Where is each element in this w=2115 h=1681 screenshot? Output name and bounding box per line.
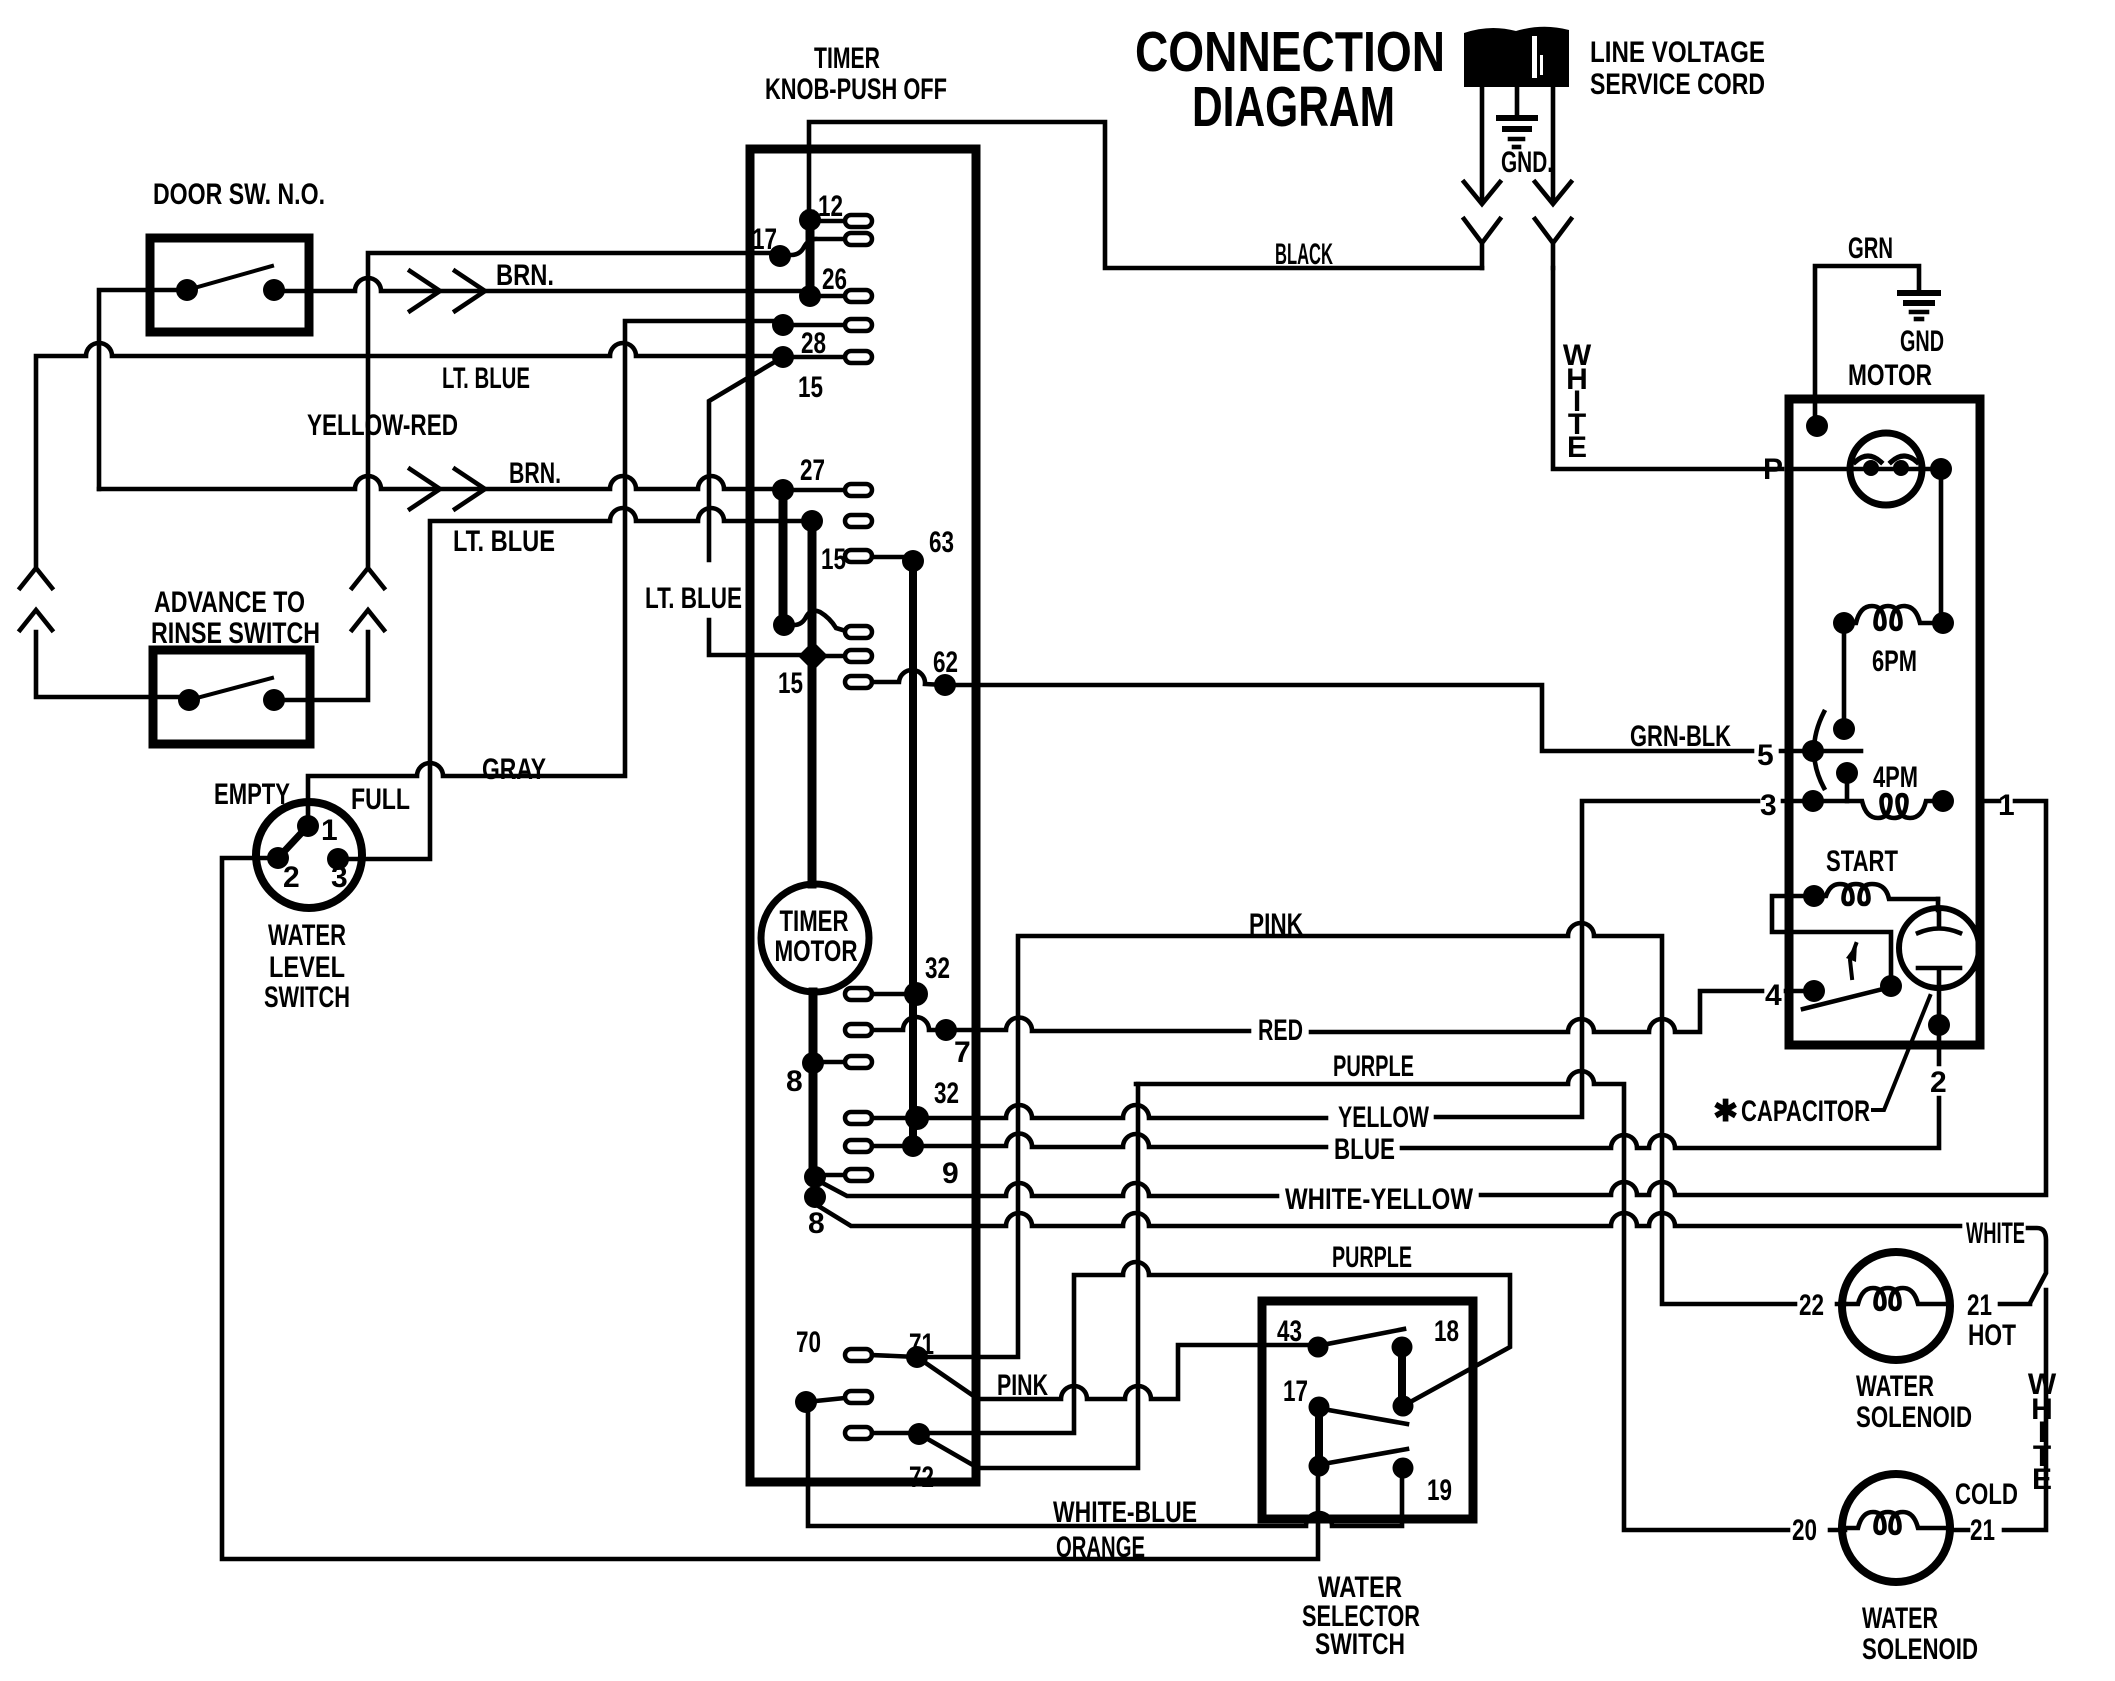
- timer terminal 70: [845, 1391, 872, 1403]
- svg-text:3: 3: [1760, 789, 1777, 822]
- 6PM coil: [1844, 606, 1943, 629]
- svg-text:15: 15: [798, 371, 823, 404]
- svg-text:DOOR SW. N.O.: DOOR SW. N.O.: [153, 178, 325, 211]
- timer terminal 71: [845, 1349, 872, 1361]
- wire lower contact to 4PM: [1845, 773, 1850, 801]
- svg-text:WATER: WATER: [1856, 1370, 1934, 1403]
- timer terminal 28: [845, 351, 872, 363]
- selector bar 18: [1398, 1347, 1406, 1406]
- timer terminal LT.BLUE pin: [845, 515, 872, 527]
- timer terminal 8 upper: [845, 1056, 872, 1068]
- timer terminal 8a: [845, 1169, 872, 1181]
- wire terminal to dot 63: [872, 555, 913, 560]
- wire PINK pin 71 up and over: [872, 923, 1845, 1357]
- selector contact 17 dot: [1309, 1397, 1330, 1418]
- start switch right dot: [1880, 975, 1902, 997]
- svg-text:RED: RED: [1258, 1014, 1303, 1047]
- wire YELLOW pin 32b to motor pin 3: [872, 801, 1813, 1118]
- timer pin 26 dot: [799, 285, 821, 307]
- svg-text:LT. BLUE: LT. BLUE: [453, 525, 555, 558]
- wire GRAY from water level pin 1 to timer gray pin: [308, 321, 775, 826]
- selector contact 19 dot: [1393, 1458, 1414, 1479]
- timer pin 8a dot: [804, 1166, 826, 1188]
- svg-text:BRN.: BRN.: [496, 259, 554, 292]
- timer contact bar 12-26: [806, 214, 815, 296]
- dot 63: [902, 550, 924, 572]
- plug left prong wire with arrow: [1464, 87, 1500, 204]
- timer pin 28 dot: [772, 346, 794, 368]
- svg-text:BLUE: BLUE: [1334, 1133, 1395, 1166]
- timer gray pin dot: [772, 314, 794, 336]
- timer terminal 62: [845, 676, 872, 688]
- timer terminal 17: [845, 233, 872, 245]
- start winding left dot: [1803, 885, 1825, 907]
- capacitor plates: [1918, 912, 1960, 987]
- motor pulley circle: [1850, 433, 1922, 505]
- svg-text:SERVICE CORD: SERVICE CORD: [1590, 68, 1765, 101]
- svg-text:YELLOW: YELLOW: [1338, 1101, 1429, 1134]
- label TIMER MOTOR: [775, 905, 858, 968]
- svg-text:BRN.: BRN.: [509, 457, 561, 490]
- timer terminal 9: [845, 1140, 872, 1152]
- start switch arm: [1803, 988, 1887, 1009]
- wire RED pin 7 to motor pin 4: [872, 991, 1814, 1032]
- timer terminal 26: [845, 290, 872, 302]
- hot solenoid circle: [1842, 1252, 1950, 1360]
- svg-text:8: 8: [786, 1065, 803, 1098]
- svg-text:17: 17: [752, 223, 777, 256]
- svg-text:WHITE-BLUE: WHITE-BLUE: [1053, 1496, 1197, 1529]
- label WATER SOLENOID (hot): [1856, 1370, 1972, 1434]
- water level switch contact 2: [267, 847, 289, 869]
- svg-text:21: 21: [1970, 1514, 1995, 1547]
- pulley contact dots: [1863, 460, 1879, 476]
- timer pin 8b dot: [804, 1186, 826, 1208]
- svg-text:1: 1: [321, 814, 338, 847]
- svg-text:WHITE-YELLOW: WHITE-YELLOW: [1285, 1183, 1474, 1216]
- service cord plug body: [1464, 27, 1569, 87]
- svg-text:PURPLE: PURPLE: [1333, 1050, 1414, 1083]
- svg-text:22: 22: [1799, 1289, 1824, 1322]
- rinse switch contact right: [263, 689, 285, 711]
- capacitor leader line: [1873, 996, 1930, 1110]
- svg-text:LT. BLUE: LT. BLUE: [442, 362, 530, 395]
- wire BRN (door switch to timer pin 26): [274, 278, 802, 291]
- svg-text:DIAGRAM: DIAGRAM: [1192, 75, 1395, 139]
- dot 62: [934, 674, 956, 696]
- timer center bar (LT.BLUE pin down to motor): [812, 521, 813, 1178]
- svg-text:4PM: 4PM: [1873, 761, 1918, 794]
- water level switch contact 1: [297, 815, 319, 837]
- svg-text:HOT: HOT: [1968, 1319, 2016, 1352]
- wire 21 hot to white riser: [1950, 1290, 2046, 1530]
- wire diamond to terminal 15b: [813, 654, 845, 659]
- timer terminal gray pin: [845, 319, 872, 331]
- svg-text:E: E: [1567, 431, 1587, 464]
- wire from door switch left down to BRN wire: [99, 290, 187, 489]
- receptacle Y right (WHITE): [1535, 219, 1571, 268]
- svg-text:72: 72: [909, 1461, 934, 1494]
- svg-text:17: 17: [1283, 1375, 1308, 1408]
- svg-text:CAPACITOR: CAPACITOR: [1741, 1095, 1870, 1128]
- label ADVANCE TO RINSE SWITCH: [151, 586, 320, 650]
- timer terminal 12: [845, 215, 872, 227]
- wire start coil to capacitor: [1936, 899, 1941, 910]
- motor pin 4 dot: [1803, 980, 1825, 1002]
- title CONNECTION DIAGRAM: [1135, 20, 1445, 139]
- timer pin 8 upper wire to terminal: [813, 1060, 845, 1065]
- door switch contact right: [263, 279, 285, 301]
- timer pin 70 wire to terminal: [806, 1398, 845, 1402]
- water level switch body: [256, 802, 362, 908]
- svg-text:SWITCH: SWITCH: [1315, 1628, 1405, 1661]
- timer pin 27 dot: [772, 479, 794, 501]
- motor box: [1789, 399, 1980, 1045]
- svg-text:32: 32: [925, 952, 950, 985]
- svg-text:SWITCH: SWITCH: [264, 981, 350, 1014]
- plug ground prong: [1499, 87, 1535, 147]
- door switch box: [150, 238, 309, 332]
- svg-text:5: 5: [1757, 739, 1774, 772]
- timer pin 8 upper dot: [802, 1052, 824, 1074]
- label WATER LEVEL SWITCH: [264, 919, 350, 1014]
- timer pin 27 wire to terminal: [783, 488, 845, 493]
- wire left chevron line down to rinse switch: [36, 632, 180, 697]
- selector contact 18 dot: [1392, 1337, 1413, 1358]
- water selector switch box: [1262, 1301, 1473, 1519]
- svg-text:RINSE SWITCH: RINSE SWITCH: [151, 617, 320, 650]
- svg-text:2: 2: [1930, 1066, 1947, 1099]
- svg-text:GND.: GND.: [1501, 146, 1553, 179]
- timer pin dot for LT.BLUE pin: [801, 510, 823, 532]
- svg-text:✱: ✱: [1713, 1095, 1738, 1128]
- wire rinse switch right to timer pin 17: [274, 253, 771, 700]
- svg-text:ADVANCE TO: ADVANCE TO: [154, 586, 305, 619]
- water level switch contact 3: [327, 848, 349, 870]
- svg-text:43: 43: [1277, 1315, 1302, 1348]
- dot right of pulley: [1930, 458, 1952, 480]
- selector arm 43: [1322, 1329, 1404, 1345]
- timer bar 63 to 9: [909, 561, 917, 1146]
- label LINE VOLTAGE SERVICE CORD: [1590, 36, 1765, 101]
- start winding coil: [1814, 884, 1938, 904]
- label TIMER KNOB-PUSH OFF: [765, 42, 947, 106]
- dot 32b: [905, 1106, 929, 1130]
- svg-text:12: 12: [818, 190, 843, 223]
- svg-text:6PM: 6PM: [1872, 645, 1917, 678]
- svg-text:15: 15: [778, 667, 803, 700]
- svg-text:SOLENOID: SOLENOID: [1856, 1401, 1972, 1434]
- timer terminal 27: [845, 484, 872, 496]
- svg-text:ORANGE: ORANGE: [1056, 1531, 1145, 1564]
- motor pin 3 dot: [1802, 790, 1824, 812]
- svg-text:GND: GND: [1900, 325, 1944, 358]
- svg-text:LEVEL: LEVEL: [269, 951, 345, 984]
- timer pin 28 wire to terminal: [783, 355, 845, 360]
- motor switch upper contact dot: [1833, 718, 1855, 740]
- 6PM coil right dot: [1932, 612, 1954, 634]
- selector arm 17b: [1323, 1449, 1407, 1464]
- timer terminal 7: [845, 1024, 872, 1036]
- ground symbol (motor): [1900, 293, 1938, 319]
- svg-text:62: 62: [933, 646, 958, 679]
- svg-text:LT. BLUE: LT. BLUE: [645, 582, 742, 615]
- wire WHITE-YELLOW pin 8 to motor pin 1: [817, 801, 2046, 1196]
- junction diamond 15: [798, 641, 828, 671]
- svg-text:18: 18: [1434, 1315, 1459, 1348]
- quick-connect arrows on second BRN wire: [410, 469, 485, 509]
- svg-text:GRAY: GRAY: [482, 753, 546, 786]
- svg-text:8: 8: [808, 1207, 825, 1240]
- wire PURPLE pin 72 horizontal to riser: [872, 1262, 1510, 1433]
- selector contact 18b dot: [1393, 1396, 1414, 1417]
- timer pin 17 dot: [769, 245, 791, 267]
- 4PM coil: [1813, 795, 1943, 818]
- wire BLACK from plug to timer knob wire: [809, 122, 1482, 268]
- door switch contact left: [176, 279, 198, 301]
- wire 6PM to switch contact: [1842, 623, 1847, 729]
- timer terminal 32b: [845, 1112, 872, 1124]
- svg-text:KNOB-PUSH OFF: KNOB-PUSH OFF: [765, 73, 947, 106]
- wire PURPLE to solenoid 20: [1136, 1071, 1845, 1530]
- dot 9: [902, 1135, 924, 1157]
- svg-text:YELLOW-RED: YELLOW-RED: [307, 409, 458, 442]
- timer terminal 32a: [845, 988, 872, 1000]
- label WHITE (vertical): [1563, 339, 1592, 464]
- dot 7: [935, 1019, 957, 1041]
- wire WHITE from plug down to motor P: [1553, 268, 1782, 469]
- svg-text:9: 9: [942, 1157, 959, 1190]
- svg-text:GRN-BLK: GRN-BLK: [1630, 720, 1731, 753]
- wire terminal to dot 32a: [872, 992, 916, 997]
- dot 72: [908, 1423, 930, 1445]
- svg-text:SOLENOID: SOLENOID: [1862, 1633, 1978, 1666]
- wire WHITE pin 8 to solenoid 21: [820, 1207, 2046, 1303]
- capacitor pin 2 dot: [1928, 1014, 1950, 1036]
- start switch flag: [1850, 944, 1856, 978]
- capacitor circle: [1899, 908, 1979, 988]
- svg-text:20: 20: [1792, 1514, 1817, 1547]
- timer pin 26 wire to terminal: [810, 294, 845, 299]
- svg-text:GRN: GRN: [1848, 232, 1893, 265]
- pulley contact arcs: [1855, 456, 1917, 462]
- timer pin 15a hop wire to terminal: [784, 611, 846, 631]
- svg-text:3: 3: [331, 861, 348, 894]
- motor switch bar from 5: [1813, 749, 1861, 754]
- timer pin 70 dot: [795, 1391, 817, 1413]
- timer pin 12 dot: [799, 209, 821, 231]
- label WATER SELECTOR SWITCH: [1302, 1571, 1420, 1661]
- timer contact bar 27-15: [779, 490, 788, 625]
- label WATER SOLENOID (cold): [1862, 1602, 1978, 1666]
- wire LT. BLUE (left vertical to timer pin 28): [36, 343, 775, 565]
- svg-text:WHITE: WHITE: [1966, 1217, 2025, 1250]
- quick-connect arrows on BRN wire: [410, 271, 485, 311]
- 4PM right dot: [1932, 790, 1954, 812]
- water level switch arm 2-1: [278, 828, 306, 858]
- motor pin 5 dot: [1802, 740, 1824, 762]
- receptacle Y left (BLACK): [1464, 219, 1500, 268]
- timer motor circle: [761, 884, 869, 992]
- pulley wire through: [1789, 467, 1941, 472]
- svg-text:COLD: COLD: [1955, 1478, 2018, 1511]
- svg-text:70: 70: [796, 1326, 821, 1359]
- svg-text:PINK: PINK: [1249, 908, 1303, 941]
- svg-text:EMPTY: EMPTY: [214, 778, 290, 811]
- svg-text:FULL: FULL: [351, 783, 410, 816]
- wire BRN (second, to timer pin 27): [99, 476, 776, 489]
- svg-text:2: 2: [283, 861, 300, 894]
- selector bar 17: [1315, 1407, 1323, 1466]
- hot solenoid coil: [1844, 1288, 1948, 1309]
- wire from pin 28 dot to inner LT.BLUE vertical: [709, 357, 800, 655]
- svg-text:WATER: WATER: [268, 919, 346, 952]
- timer pin 17 hop wire to terminal: [780, 239, 845, 255]
- timer terminal 63: [845, 550, 872, 562]
- motor switch arc: [1814, 712, 1824, 788]
- svg-text:19: 19: [1427, 1474, 1452, 1507]
- svg-text:MOTOR: MOTOR: [1848, 359, 1932, 392]
- svg-text:PURPLE: PURPLE: [1332, 1241, 1412, 1274]
- wire ORANGE from water level pin 2 to selector pin 17: [222, 858, 1318, 1559]
- cold solenoid coil: [1844, 1512, 1948, 1533]
- wire 62 to motor switch pin 5: [872, 670, 1813, 751]
- motor switch lower contact dot: [1836, 762, 1858, 784]
- rinse switch arm: [189, 678, 272, 700]
- wire PINK pin 71 to selector 43: [917, 1345, 1318, 1399]
- svg-text:PINK: PINK: [997, 1369, 1048, 1402]
- dot 32a: [904, 982, 928, 1006]
- svg-text:MOTOR: MOTOR: [775, 935, 858, 968]
- label WHITE (vertical right): [2028, 1368, 2057, 1496]
- 6PM coil left dot: [1833, 612, 1855, 634]
- svg-text:WATER: WATER: [1862, 1602, 1938, 1635]
- door switch arm: [187, 266, 272, 290]
- cold solenoid circle: [1842, 1474, 1950, 1582]
- svg-text:TIMER: TIMER: [780, 905, 849, 938]
- motor ground dot: [1806, 415, 1828, 437]
- svg-text:P: P: [1763, 453, 1783, 486]
- chevrons on right advance wire: [352, 568, 384, 630]
- timer terminal 15b: [845, 650, 872, 662]
- selector arm 17: [1323, 1409, 1407, 1424]
- selector contact 17b dot: [1309, 1456, 1330, 1477]
- wire pulley to 6PM coil: [1939, 469, 1944, 623]
- wire WHITE-BLUE pin 70 to selector 19: [808, 1402, 1402, 1526]
- selector contact 43 dot: [1308, 1337, 1329, 1358]
- start switch frame: [1772, 896, 1891, 986]
- svg-text:27: 27: [800, 454, 825, 487]
- rinse switch contact left: [178, 689, 200, 711]
- timer box: [750, 149, 976, 1482]
- timer terminal 15a: [845, 626, 872, 638]
- svg-text:26: 26: [822, 263, 847, 296]
- svg-text:21: 21: [1967, 1289, 1992, 1322]
- svg-text:7: 7: [954, 1036, 971, 1069]
- svg-text:63: 63: [929, 526, 954, 559]
- svg-text:BLACK: BLACK: [1275, 238, 1333, 271]
- dot 71: [906, 1346, 928, 1368]
- wire PURPLE pin 72 diagonal to riser: [919, 1084, 1138, 1468]
- timer pin 12 wire to terminal: [810, 219, 845, 224]
- wire GRN motor to ground: [1815, 266, 1919, 420]
- svg-text:1: 1: [1998, 789, 2015, 822]
- plug right prong wire with arrow: [1535, 87, 1571, 204]
- svg-text:E: E: [2032, 1463, 2052, 1496]
- svg-text:32: 32: [934, 1077, 959, 1110]
- advance to rinse switch box: [153, 650, 310, 744]
- svg-text:START: START: [1826, 845, 1898, 878]
- timer terminal 72: [845, 1427, 872, 1439]
- chevrons on left advance wire: [20, 568, 52, 630]
- wire BLUE pin 9 to capacitor pin 2: [872, 988, 1939, 1148]
- wire LT. BLUE from water level pin 3 to timer pin: [338, 508, 804, 859]
- svg-text:4: 4: [1765, 979, 1782, 1012]
- timer pin 15a dot: [773, 614, 795, 636]
- svg-text:LINE VOLTAGE: LINE VOLTAGE: [1590, 36, 1765, 69]
- svg-text:15: 15: [821, 543, 846, 576]
- timer pin 8a wire to terminal: [815, 1173, 845, 1178]
- svg-text:TIMER: TIMER: [814, 42, 880, 75]
- timer gray pin wire to terminal: [783, 323, 845, 328]
